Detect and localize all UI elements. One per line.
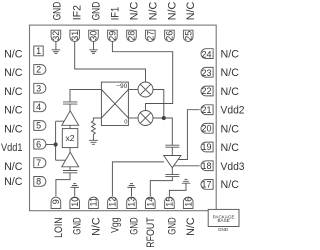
svg-text:N/C: N/C (221, 142, 240, 154)
svg-text:2: 2 (36, 65, 41, 75)
svg-text:N/C: N/C (221, 67, 240, 79)
svg-text:23: 23 (201, 68, 211, 78)
svg-text:N/C: N/C (4, 67, 23, 79)
svg-text:−90: −90 (116, 83, 127, 90)
svg-text:N/C: N/C (147, 2, 159, 21)
svg-text:N/C: N/C (185, 2, 197, 21)
svg-text:25: 25 (183, 31, 193, 41)
svg-text:N/C: N/C (221, 123, 240, 135)
svg-text:GND: GND (166, 217, 178, 235)
svg-text:8: 8 (36, 177, 41, 187)
svg-text:N/C: N/C (185, 217, 197, 236)
svg-text:7: 7 (36, 158, 41, 168)
svg-text:21: 21 (201, 105, 211, 115)
svg-text:12: 12 (108, 197, 118, 207)
svg-text:N/C: N/C (91, 217, 103, 236)
svg-text:19: 19 (201, 142, 211, 152)
svg-text:26: 26 (165, 31, 175, 41)
svg-text:N/C: N/C (4, 105, 23, 117)
svg-text:GND: GND (129, 217, 141, 235)
svg-text:4: 4 (36, 102, 41, 112)
svg-text:30: 30 (89, 31, 99, 41)
svg-text:31: 31 (70, 31, 80, 41)
svg-text:24: 24 (201, 49, 211, 59)
svg-text:N/C: N/C (4, 161, 23, 173)
svg-text:17: 17 (201, 180, 211, 190)
svg-text:GND: GND (52, 2, 64, 21)
svg-text:N/C: N/C (4, 48, 23, 60)
svg-text:N/C: N/C (166, 2, 178, 21)
svg-text:GND: GND (72, 217, 84, 235)
svg-text:13: 13 (127, 197, 137, 207)
svg-text:15: 15 (165, 197, 175, 207)
svg-text:RFOUT: RFOUT (145, 217, 157, 248)
svg-text:N/C: N/C (4, 123, 23, 135)
svg-text:10: 10 (70, 197, 80, 207)
svg-text:IF2: IF2 (72, 5, 84, 20)
svg-text:N/C: N/C (4, 86, 23, 98)
svg-text:IF1: IF1 (109, 7, 121, 21)
svg-text:N/C: N/C (4, 176, 23, 188)
svg-text:20: 20 (201, 124, 211, 134)
svg-text:GND: GND (218, 227, 229, 232)
svg-text:Vdd3: Vdd3 (221, 161, 245, 173)
svg-text:9: 9 (51, 199, 61, 204)
svg-text:Vdd2: Vdd2 (221, 105, 245, 117)
svg-text:28: 28 (127, 31, 137, 41)
svg-text:LOIN: LOIN (53, 217, 65, 238)
svg-text:14: 14 (146, 197, 156, 207)
svg-text:GND: GND (91, 2, 103, 21)
svg-text:18: 18 (201, 161, 211, 171)
svg-text:22: 22 (201, 86, 211, 96)
svg-text:N/C: N/C (221, 179, 240, 191)
svg-text:0: 0 (124, 119, 127, 125)
svg-text:N/C: N/C (221, 86, 240, 98)
svg-text:27: 27 (146, 31, 156, 41)
svg-text:Vdd1: Vdd1 (1, 142, 23, 154)
svg-text:16: 16 (183, 197, 193, 207)
svg-text:5: 5 (36, 121, 41, 131)
svg-text:1: 1 (36, 46, 41, 56)
svg-text:3: 3 (36, 83, 41, 93)
svg-text:32: 32 (51, 31, 61, 41)
svg-text:BASE: BASE (217, 218, 229, 223)
svg-text:x2: x2 (65, 133, 74, 143)
svg-text:29: 29 (108, 31, 118, 41)
svg-text:Vgg: Vgg (109, 217, 121, 233)
svg-text:N/C: N/C (221, 48, 240, 60)
svg-text:11: 11 (89, 197, 99, 206)
svg-text:6: 6 (36, 139, 41, 149)
svg-text:N/C: N/C (129, 2, 141, 21)
